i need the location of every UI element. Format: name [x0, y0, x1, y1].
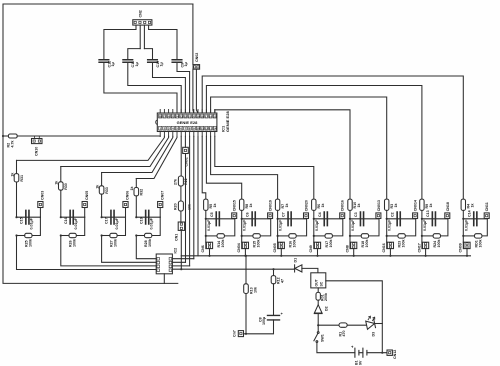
wire cell x277 lower branch [296, 219, 306, 236]
svg-text:14: 14 [213, 127, 217, 131]
svg-text:CN17: CN17 [417, 243, 421, 252]
svg-text:13: 13 [209, 127, 213, 131]
wire cell CN05 to bottom-left bus [61, 236, 156, 266]
resistor R1 470 [339, 323, 347, 327]
connector CN019 [268, 213, 273, 219]
svg-text:100k: 100k [329, 240, 333, 248]
connector CN10 [32, 139, 43, 144]
connector CN02 [193, 65, 200, 70]
wire cell x386 vertical to connector [386, 219, 388, 242]
connector CN04 [241, 242, 243, 248]
connector CN013 [376, 213, 381, 219]
wire cell CN07 lower branch [152, 217, 160, 235]
wire R31 to node [16, 182, 18, 217]
wire bus cell C to IC1 pin4b [102, 136, 173, 172]
resistor R01 200k [316, 292, 320, 300]
svg-text:27: 27 [163, 114, 167, 118]
svg-text:1k: 1k [213, 204, 217, 208]
resistor R24 100k [433, 234, 440, 238]
svg-text:0.01μF: 0.01μF [30, 217, 34, 229]
svg-text:24: 24 [175, 114, 179, 118]
svg-text:C14: C14 [467, 210, 471, 217]
wire bus IC1 pin11b to cell x205 [202, 136, 206, 200]
wire R17 to main vertical [314, 235, 325, 237]
wire C10 to IC1 pin7 [153, 62, 186, 113]
svg-text:1k: 1k [95, 185, 99, 189]
wire cell CN06 lower branch [117, 217, 125, 235]
IC1 top pin number boxes with numbers [159, 114, 162, 118]
svg-text:C3: C3 [354, 212, 358, 217]
wire CN02 pinB to IC1 pin10 [196, 69, 198, 113]
wire R2 to IC1 pin1b [17, 135, 160, 137]
wire cell x205 vertical to connector [205, 219, 207, 242]
wire cell CN07 to bottom-left bus [136, 236, 156, 259]
svg-text:1k: 1k [10, 173, 14, 177]
wire R24 to main vertical [422, 235, 433, 237]
connector CN18 [445, 213, 450, 219]
svg-text:C13: C13 [426, 210, 430, 217]
svg-text:CN1: CN1 [175, 234, 179, 241]
wire cell x277 to bottom bus [280, 249, 282, 256]
resistor R8 1k [240, 199, 244, 210]
capacitor C19 0.01uF [146, 210, 149, 224]
connector CN7 [238, 331, 243, 337]
connector CN01 [183, 147, 189, 153]
capacitor C10 1uF [148, 60, 158, 63]
wire cell CN06 cap branch [102, 216, 126, 218]
wire cell x277 cap branch [278, 218, 307, 220]
wire cell x463 cap branch [463, 218, 487, 220]
svg-text:CN8: CN8 [345, 245, 349, 252]
wire C12 to IC1 pin5 [104, 62, 177, 113]
wire R33 to node [101, 194, 103, 217]
wire cell x463 to bottom bus [466, 249, 468, 256]
wire SW1 to battery [317, 342, 355, 352]
resistor R30 1k [59, 182, 64, 190]
svg-text:1k: 1k [357, 204, 361, 208]
wire cell x205 to bottom bus [209, 249, 211, 256]
wire ground loop border (top/left/bottom) [3, 4, 193, 283]
svg-text:D2: D2 [325, 306, 329, 311]
wire cell x421 vertical to connector [421, 219, 423, 242]
LED D3 [365, 315, 377, 329]
wire cell x463 lower branch [482, 219, 487, 236]
resistor R4 1k [461, 199, 465, 210]
svg-text:17: 17 [205, 114, 209, 118]
wire R6 to node [313, 210, 315, 218]
svg-text:100k: 100k [478, 240, 482, 248]
wire cell x386 to bottom bus [389, 249, 391, 256]
wire R27 to main vertical [102, 235, 110, 237]
resistor R2 4.7k [3, 135, 8, 137]
svg-text:CN9: CN9 [309, 245, 313, 252]
wire R22 to R20 [180, 186, 182, 201]
svg-text:1k: 1k [285, 204, 289, 208]
wire C8 to CN7 wire [243, 320, 274, 334]
svg-text:100k: 100k [221, 240, 225, 248]
svg-text:D3: D3 [372, 332, 376, 337]
svg-text:CN019: CN019 [269, 200, 273, 211]
svg-text:11: 11 [201, 127, 205, 131]
wire cell x350 lower branch [369, 219, 379, 236]
svg-text:1μ: 1μ [111, 62, 115, 66]
svg-text:CN013: CN013 [377, 200, 381, 211]
svg-text:C17: C17 [105, 217, 109, 224]
svg-text:1k: 1k [130, 187, 134, 191]
wire C9 to IC1 pin8 [177, 62, 190, 113]
wire D2 junction to R1 branch [318, 324, 339, 326]
wire RD1 to main vertical [463, 235, 474, 237]
svg-text:0.01μF: 0.01μF [464, 219, 468, 231]
resistor R23 100k [398, 234, 405, 238]
svg-text:C5: C5 [210, 212, 214, 217]
wire R5 to node [205, 210, 207, 218]
resistor R9 1k [420, 199, 424, 210]
svg-text:SW1: SW1 [321, 334, 325, 342]
resistor R6 1k [312, 199, 316, 210]
wire CN1 down to audio bus [180, 230, 182, 269]
wire D1 to IC3 [302, 268, 318, 272]
svg-text:1k: 1k [55, 181, 59, 185]
wire D2 junction to SW1 [317, 325, 319, 331]
wire R12 to C8 [273, 284, 275, 316]
wire IC1 pin8b down [189, 136, 191, 266]
wire cell CN03 cap branch [17, 216, 41, 218]
resistor R3 1k [385, 199, 389, 210]
wire R23 to main vertical [387, 235, 398, 237]
wire cell x350 cap branch [350, 218, 379, 220]
resistor R33 1k [99, 186, 104, 194]
connector CN014 [413, 213, 418, 219]
svg-text:0.01μF: 0.01μF [279, 219, 283, 231]
wire bus IC1 pin11 to cell x463 loop [202, 76, 463, 200]
svg-text:0.01μF: 0.01μF [243, 219, 247, 231]
capacitor C6 0.01uF [252, 212, 255, 226]
wire cell CN03 to bottom-left bus [17, 236, 157, 270]
wire cell x277 vertical to connector [277, 219, 279, 242]
svg-text:0.01μF: 0.01μF [207, 219, 211, 231]
resistor R26 100k [69, 233, 76, 237]
svg-text:R20: R20 [174, 203, 178, 210]
wire R32 to node [135, 196, 137, 217]
svg-text:100k: 100k [293, 240, 297, 248]
svg-text:0.01μF: 0.01μF [74, 217, 78, 229]
wire bus IC1 pin12b to cell x241 [206, 136, 241, 200]
svg-text:10k: 10k [254, 287, 258, 293]
wire bus corner cell CN03 [16, 160, 18, 173]
svg-text:28: 28 [159, 114, 163, 118]
wire battery junction [381, 352, 383, 354]
svg-text:CN016: CN016 [341, 200, 345, 211]
wire bus cell B to IC1 pin3b [61, 136, 169, 166]
capacitor C13 0.01uF [432, 212, 435, 226]
svg-text:C4: C4 [318, 212, 322, 217]
connector CN06 [123, 202, 128, 208]
svg-text:CN10: CN10 [35, 147, 39, 156]
svg-text:CN07: CN07 [160, 191, 164, 200]
svg-text:CN16: CN16 [382, 243, 386, 252]
svg-text:CN05: CN05 [273, 243, 277, 252]
wire cell x241 lower branch [260, 219, 270, 236]
resistor R13 10k [244, 284, 249, 294]
connector CN015 [232, 213, 237, 219]
wire cell CN07 cap branch [136, 216, 160, 218]
wire bus IC1 pin13b to cell x277 [211, 136, 278, 200]
svg-text:CN09: CN09 [459, 243, 463, 252]
wire cell x313 cap branch [314, 218, 343, 220]
wire bus IC1 pin13 to cell x387 loop [211, 97, 387, 200]
wire CN2 pin3 to C10 [144, 49, 152, 60]
svg-text:12: 12 [205, 127, 209, 131]
wire cell x350 to bottom bus [353, 249, 355, 256]
svg-text:CN020: CN020 [305, 200, 309, 211]
resistor R5 1k [204, 199, 208, 210]
connector CN12 [387, 350, 392, 355]
wire cell x463 vertical to connector [462, 219, 464, 242]
svg-text:C6: C6 [246, 212, 250, 217]
svg-text:1μ: 1μ [135, 62, 139, 66]
svg-text:C2: C2 [391, 212, 395, 217]
capacitor C5 0.01uF [216, 212, 219, 226]
resistor R18 100k [361, 234, 368, 238]
resistor R14 100k [217, 234, 224, 238]
svg-text:CN11: CN11 [485, 202, 489, 211]
wire IC2 right pins to columns [172, 259, 193, 270]
wire cell x386 lower branch [405, 219, 415, 236]
resistor R25 100k [25, 233, 32, 237]
svg-text:R32: R32 [140, 189, 144, 196]
wire CN02 pinA from border to IC1 pin9 [192, 4, 195, 113]
svg-text:25: 25 [171, 114, 175, 118]
svg-text:100k: 100k [365, 240, 369, 248]
connector CN03 [38, 202, 43, 208]
connector CN16 [386, 242, 388, 248]
svg-text:0.01μF: 0.01μF [150, 217, 154, 229]
svg-text:100μ: 100μ [262, 317, 266, 325]
connector CN09 [462, 242, 464, 248]
capacitor C12 1uF [99, 60, 109, 63]
wire cell x313 lower branch [332, 219, 342, 236]
svg-text:15: 15 [213, 114, 217, 118]
wire cell x421 lower branch [441, 219, 448, 236]
capacitor C2 0.01uF [397, 212, 400, 226]
connector CN016 [340, 213, 345, 219]
wire cell x313 vertical to connector [313, 219, 315, 242]
wire R10 to node [349, 210, 351, 218]
wire bus IC1 pin14 to cell x350 loop [215, 110, 350, 200]
wire R20 to CN1 [180, 211, 182, 222]
wire cell x386 cap branch [387, 218, 416, 220]
wire R16 to main vertical [278, 235, 289, 237]
svg-text:10: 10 [196, 127, 200, 131]
resistor R28 100k [145, 233, 152, 237]
svg-text:1k: 1k [394, 204, 398, 208]
svg-text:100k: 100k [28, 239, 32, 247]
svg-text:1k: 1k [429, 204, 433, 208]
wire CN2 pin4 to C9 [149, 30, 177, 60]
resistor R17 100k [325, 234, 332, 238]
svg-text:CN04: CN04 [237, 243, 241, 252]
capacitor C17 0.01uF [111, 210, 114, 224]
svg-text:1k: 1k [249, 204, 253, 208]
svg-text:CN014: CN014 [414, 200, 418, 211]
connector CN05 [82, 202, 87, 208]
wire bus corner cell CN06 [101, 173, 103, 186]
svg-text:0.01μF: 0.01μF [423, 219, 427, 231]
wire IC1 pin6b column [180, 136, 182, 176]
switch SW1 [317, 332, 319, 334]
wire R3 to node [386, 210, 388, 218]
wire CN2 pin1 to C12 [104, 30, 136, 60]
capacitor C9 1uF [172, 60, 182, 63]
wire R28 to main vertical [136, 235, 144, 237]
IC IC2 body [156, 254, 172, 274]
wire R25 to main vertical [17, 235, 25, 237]
capacitor C4 0.01uF [324, 212, 327, 226]
svg-text:22: 22 [184, 114, 188, 118]
svg-text:1k: 1k [471, 204, 475, 208]
svg-text:CN2: CN2 [139, 10, 143, 17]
svg-text:CN12: CN12 [393, 350, 397, 359]
wire cell x421 cap branch [422, 218, 448, 220]
svg-text:470: 470 [342, 331, 346, 337]
resistor R15 100k [253, 234, 260, 238]
svg-text:0.01μF: 0.01μF [351, 219, 355, 231]
wire IC1 pin9b down [193, 136, 195, 258]
svg-text:R30: R30 [64, 183, 68, 190]
svg-text:GENIE E28: GENIE E28 [177, 120, 198, 125]
svg-text:CN02: CN02 [195, 53, 199, 62]
svg-text:4.7k: 4.7k [11, 141, 15, 148]
svg-text:27k: 27k [174, 179, 178, 185]
wire bus corner cell CN05 [60, 167, 62, 182]
resistor R12 47 [271, 276, 276, 284]
wire R13 down to CN7 node [245, 294, 247, 334]
wire R7 to node [277, 210, 279, 218]
svg-text:C19: C19 [139, 217, 143, 224]
wire IC3 right to loop [326, 281, 383, 353]
wire R14 to main vertical [206, 235, 217, 237]
svg-text:CN015: CN015 [233, 200, 237, 211]
wire bus IC1 pin14b to cell x313 [215, 136, 314, 200]
svg-text:0.01μF: 0.01μF [115, 217, 119, 229]
IC1 top pin stubs [160, 110, 215, 114]
svg-text:0.01μF: 0.01μF [315, 219, 319, 231]
wire C11 to IC1 pin6 [128, 62, 181, 113]
svg-text:GENIE E28: GENIE E28 [225, 111, 230, 132]
wire R18 to main vertical [350, 235, 361, 237]
wire cell x205 cap branch [206, 218, 235, 220]
svg-text:100k: 100k [402, 240, 406, 248]
wire bus cell D to IC1 pin5b [136, 136, 177, 178]
connector CN17 [421, 242, 423, 248]
wire IC3 bottom to R01 [317, 288, 319, 293]
wire CN2 pin stubs [136, 25, 149, 48]
wire IC1 pin7b through CN01 down [184, 136, 186, 262]
connector CN9 [313, 242, 315, 248]
wire R8 to node [241, 210, 243, 218]
connector CN1 [178, 222, 184, 230]
svg-text:200k: 200k [324, 293, 328, 301]
capacitor C15 0.01uF [26, 210, 29, 224]
svg-text:D1: D1 [294, 258, 298, 263]
wire R15 to main vertical [242, 235, 253, 237]
svg-text:C15: C15 [20, 217, 24, 224]
connector CN07 [158, 202, 163, 208]
wire bus IC1 pin12 to cell x422 loop [206, 86, 422, 201]
wire cell x241 cap branch [242, 218, 271, 220]
svg-text:26: 26 [167, 114, 171, 118]
wire cell CN06 to bottom-left bus [102, 236, 157, 263]
wire cell CN05 lower branch [76, 217, 84, 235]
svg-text:IC2: IC2 [174, 248, 178, 254]
svg-text:R31: R31 [20, 175, 24, 182]
resistor RD1 100k [475, 234, 482, 238]
wire audio bus junction to R12 [273, 269, 275, 275]
wire cell x350 vertical to connector [349, 219, 351, 242]
svg-text:1k: 1k [321, 204, 325, 208]
svg-text:SC: SC [319, 281, 323, 286]
wire cell x241 vertical to connector [241, 219, 243, 242]
svg-text:23: 23 [180, 114, 184, 118]
IC IC3 amplifier [311, 273, 326, 288]
svg-text:CN18: CN18 [446, 202, 450, 211]
connector CN020 [304, 213, 309, 219]
svg-text:18: 18 [201, 114, 205, 118]
wire bus cell A to IC1 pin2b [17, 136, 165, 160]
resistor R32 1k [134, 188, 139, 196]
wire R26 to main vertical [61, 235, 69, 237]
wire cell CN03 lower branch [32, 217, 40, 235]
wire R9 to node [421, 210, 423, 218]
svg-text:19: 19 [196, 114, 200, 118]
diode D2 [317, 300, 319, 305]
wire cell CN05 cap branch [61, 216, 85, 218]
svg-text:21: 21 [188, 114, 192, 118]
svg-text:9V: 9V [359, 360, 363, 365]
wire cell x313 to bottom bus [317, 249, 319, 256]
svg-text:1μ: 1μ [160, 62, 164, 66]
connector CN2 [133, 20, 152, 25]
resistor R16 100k [289, 234, 296, 238]
connector CN8 [349, 242, 351, 248]
diode D1 [294, 265, 296, 272]
wire bus corner cell CN07 [135, 179, 137, 188]
svg-text:20: 20 [192, 114, 196, 118]
svg-text:16: 16 [209, 114, 213, 118]
svg-text:100k: 100k [257, 240, 261, 248]
wire cell x421 to bottom bus [425, 249, 427, 256]
svg-text:1μ: 1μ [184, 62, 188, 66]
capacitor C14 0.01uF [474, 212, 477, 226]
svg-text:Cn7: Cn7 [233, 330, 237, 337]
svg-text:C16: C16 [64, 217, 68, 224]
resistor R7 1k [275, 199, 279, 210]
IC1 bottom pin stubs [160, 132, 215, 137]
svg-text:OUT: OUT [315, 278, 319, 286]
svg-text:CN6: CN6 [201, 245, 205, 252]
svg-text:100k: 100k [113, 239, 117, 247]
wire cell x205 lower branch [224, 219, 234, 236]
connector CN6 [205, 242, 207, 248]
connector CN11 [484, 213, 489, 219]
resistor R10 1k [348, 199, 352, 210]
svg-text:CN06: CN06 [126, 191, 130, 200]
battery B1 9V [359, 352, 387, 354]
capacitor C11 1uF [123, 60, 133, 63]
resistor R22 27k [178, 176, 183, 186]
svg-text:100k: 100k [437, 240, 441, 248]
